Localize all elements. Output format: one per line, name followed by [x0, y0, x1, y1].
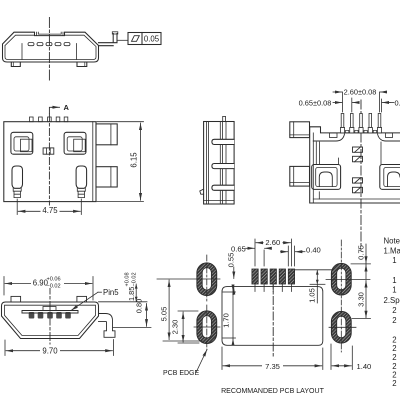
dim 6.90 — [4, 277, 93, 301]
centerline view4 — [360, 100, 362, 250]
svg-text:0.55: 0.55 — [227, 253, 236, 268]
square hole right view2 — [64, 132, 86, 154]
contact rail view5 — [22, 312, 78, 314]
svg-text:1: 1 — [392, 286, 396, 295]
dim 2.60 (pcb) — [255, 239, 291, 266]
svg-text:0.2: 0.2 — [395, 98, 400, 107]
svg-text:Notes:: Notes: — [384, 237, 400, 246]
svg-text:1: 1 — [392, 256, 396, 265]
dim 7.35 (pcb) — [222, 347, 323, 370]
inner verticals view3 — [207, 122, 226, 205]
dim 1.70 (pcb) — [223, 286, 236, 345]
edge slots view4 — [330, 133, 338, 138]
dim 1.85 — [99, 284, 148, 302]
flatness callout box — [128, 33, 161, 45]
pad leaders below — [255, 284, 291, 292]
footprint outline — [222, 287, 323, 346]
dome leg left view2 — [12, 166, 23, 188]
right inner edge view2 — [92, 122, 94, 202]
svg-text:2.Specification: 2.Specification — [384, 296, 400, 305]
svg-text:6.15: 6.15 — [129, 152, 138, 168]
foot view3 — [200, 189, 204, 194]
ledge right view4 — [378, 134, 400, 141]
solder leg view5 — [99, 314, 116, 338]
top pin stub view3 — [223, 116, 226, 121]
dome leg right view2 — [76, 166, 87, 188]
holes row view1 — [28, 43, 70, 46]
dim 0.65±0.08 (view4) — [333, 98, 358, 112]
latch right U view4 — [388, 172, 400, 187]
body outline view2 — [4, 122, 96, 202]
centerline view2 — [48, 114, 50, 213]
divider left view1 — [21, 44, 23, 60]
svg-text:0.65: 0.65 — [231, 244, 246, 253]
body view3 — [204, 122, 235, 205]
dim 9.70 — [5, 340, 113, 356]
foot left view1 — [11, 62, 20, 67]
pcb centerline — [272, 281, 274, 358]
svg-text:0.65±0.08: 0.65±0.08 — [299, 98, 332, 107]
bottom left step view4 — [318, 192, 320, 199]
shell inner line view1 — [5, 35, 96, 59]
svg-text:Pin5: Pin5 — [103, 288, 119, 297]
dim 2.60±0.08 (view4) — [333, 92, 387, 112]
parallelogram symbol — [132, 36, 140, 42]
dim 3.30 (pcb) — [352, 281, 371, 319]
shell outline view1 — [3, 32, 99, 62]
pad3 — [270, 269, 276, 284]
pad1 — [252, 269, 258, 284]
svg-text:+0.08: +0.08 — [125, 272, 131, 286]
svg-text:0.75: 0.75 — [356, 245, 365, 260]
latch left view4 — [312, 165, 341, 190]
dim 0.40 (pcb) — [281, 246, 306, 266]
latch tick lines view4 — [315, 142, 317, 165]
ledge left view4 — [313, 134, 344, 141]
pins view4 — [340, 114, 381, 133]
svg-text:2: 2 — [392, 316, 396, 325]
oval center ticks horizontal — [157, 279, 370, 327]
dim 4.75 — [17, 199, 81, 215]
leg cap view1 — [112, 32, 118, 34]
center latch feature view2 — [43, 148, 54, 154]
centerline view5 — [49, 286, 51, 346]
svg-text:4.75: 4.75 — [42, 206, 58, 215]
body outline view4 — [310, 127, 400, 203]
bar2 view3 — [212, 164, 234, 169]
inner bottom line view4 — [313, 198, 400, 200]
svg-text:2: 2 — [392, 353, 396, 362]
pad5 — [288, 269, 294, 284]
svg-text:7.35: 7.35 — [265, 362, 280, 371]
divider right view1 — [76, 44, 78, 60]
dim 1.40 (pcb) — [331, 344, 352, 370]
svg-text:2: 2 — [392, 306, 396, 315]
oval pad lower-right — [331, 307, 351, 352]
contacts view5 — [29, 312, 71, 319]
svg-text:+0.06: +0.06 — [47, 276, 61, 282]
svg-text:2.30: 2.30 — [171, 320, 180, 335]
tongue tab view5 — [43, 307, 56, 311]
svg-text:5.05: 5.05 — [159, 307, 168, 322]
centerline view1 — [48, 18, 50, 81]
svg-text:PCB EDGE: PCB EDGE — [163, 370, 200, 377]
section arrow A — [49, 107, 54, 113]
svg-text:1.40: 1.40 — [357, 362, 372, 371]
dim 0.75 (pcb) — [351, 244, 371, 279]
latch right view4 — [380, 165, 400, 190]
solder leg view1 — [99, 34, 118, 46]
svg-text:1.Material: 1.Material — [384, 246, 400, 255]
dim 6.15 — [97, 122, 144, 202]
svg-text:2: 2 — [392, 379, 396, 388]
left tab upper view4 — [290, 122, 310, 138]
svg-text:RECOMMANDED PCB LAYOUT: RECOMMANDED PCB LAYOUT — [221, 388, 325, 395]
dim 1.05 (pcb) — [295, 270, 333, 303]
top tab left view5 — [11, 296, 21, 302]
svg-text:1.05: 1.05 — [308, 288, 317, 303]
bottom double line view3 — [204, 200, 235, 202]
bar1 view3 — [212, 139, 234, 144]
svg-text:A: A — [64, 103, 70, 112]
svg-text:3.30: 3.30 — [356, 292, 365, 307]
dim 0.80 — [113, 304, 151, 328]
side tab lower view2 — [96, 167, 117, 187]
leader to flatness callout — [118, 39, 128, 41]
pad4 — [279, 269, 285, 284]
dim 0.25 right clipped (view4) — [382, 99, 395, 112]
top tab right view5 — [77, 296, 87, 302]
oval pad upper-right — [331, 240, 351, 305]
edge bumps view4 — [346, 130, 377, 133]
oval pad lower-left — [197, 305, 217, 350]
oval pad upper-left — [197, 255, 217, 302]
left tab lower view4 — [290, 166, 310, 186]
svg-text:1.70: 1.70 — [222, 313, 231, 328]
top pin bumps view2 — [30, 117, 68, 122]
svg-text:0.40: 0.40 — [306, 246, 321, 255]
foot right view1 — [77, 62, 87, 67]
dim 5.05 (pcb) — [163, 280, 202, 341]
dim 0.55 (pcb) — [233, 267, 235, 295]
dim 2.30 (pcb) — [178, 311, 199, 343]
pad2 — [261, 269, 267, 284]
square hole left view2 — [11, 132, 33, 154]
svg-text:0.80: 0.80 — [135, 299, 144, 313]
shell outer view5 — [2, 302, 99, 339]
left inner edge view4 — [312, 133, 314, 203]
notch inner view1 — [38, 32, 61, 34]
svg-text:2.60±0.08: 2.60±0.08 — [344, 88, 377, 97]
bar3 view3 — [212, 185, 234, 190]
tongue bar view5 — [22, 311, 78, 314]
svg-text:−0.02: −0.02 — [132, 272, 138, 286]
center crimp features view4 — [353, 147, 363, 193]
svg-text:2: 2 — [392, 344, 396, 353]
shell inner view5 — [5, 305, 96, 335]
svg-text:−0.02: −0.02 — [47, 283, 61, 289]
side tab upper view2 — [96, 124, 117, 145]
svg-text:0.05: 0.05 — [144, 34, 160, 43]
latch left U view4 — [319, 172, 332, 187]
svg-text:2.60: 2.60 — [265, 238, 280, 247]
svg-text:1: 1 — [392, 276, 396, 285]
svg-text:9.70: 9.70 — [42, 347, 58, 356]
